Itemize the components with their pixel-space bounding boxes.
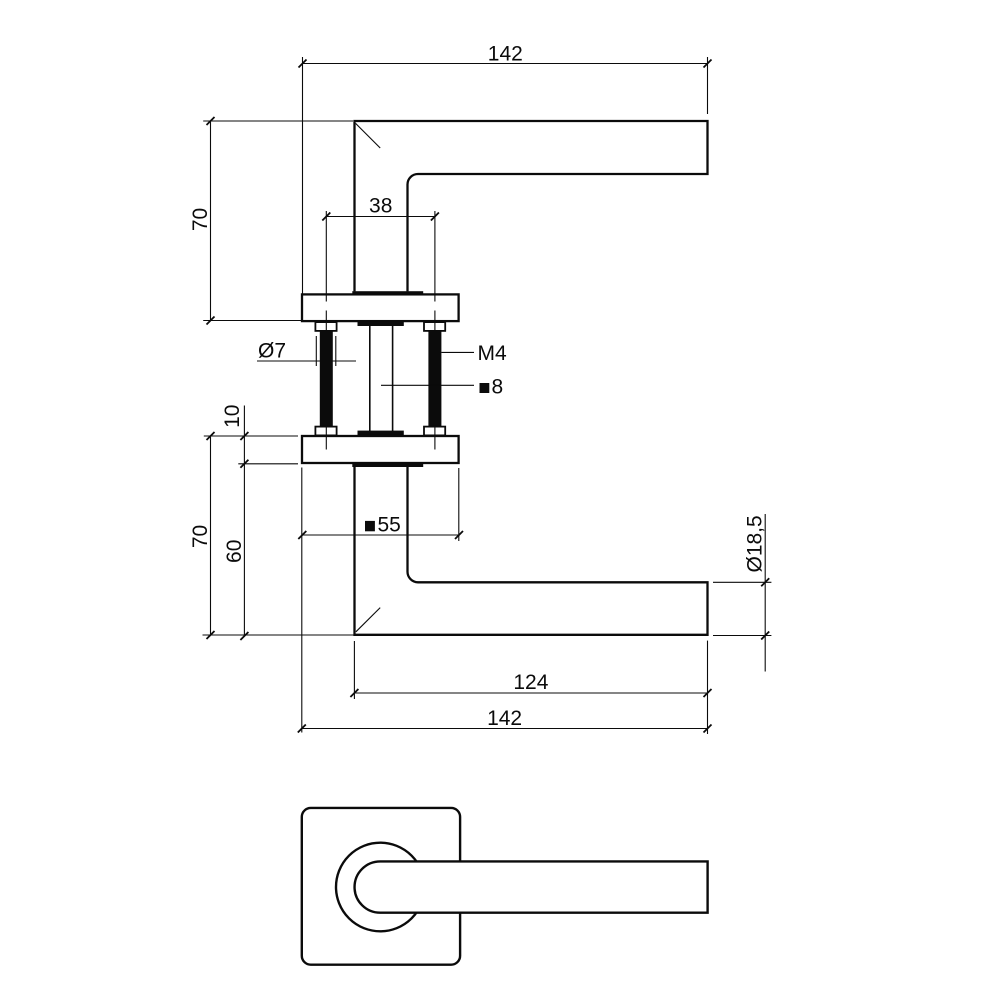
dim 55 line [302, 534, 459, 536]
diameter ticks on left bolt [315, 336, 317, 366]
dim 70 top extension top [203, 120, 353, 122]
svg-text:10: 10 [221, 405, 244, 428]
front view lever with round neck [355, 861, 708, 912]
dim 124 extension left [353, 641, 355, 699]
spindle cap bottom [358, 431, 404, 436]
dim 70 top ticks [207, 117, 215, 125]
svg-text:124: 124 [513, 671, 548, 694]
dim 18.5 extension bottom [713, 635, 771, 637]
svg-text:Ø18,5: Ø18,5 [743, 515, 766, 572]
bolt left centerline [325, 211, 327, 302]
bolt right centerline [434, 211, 436, 302]
leader diameter 7 [257, 360, 356, 362]
square-55 glyph [365, 521, 375, 531]
handle plate band lower [352, 464, 423, 467]
dim 38 line [326, 216, 435, 218]
svg-text:8: 8 [492, 375, 504, 398]
dim 142 bottom ticks [298, 725, 306, 733]
dim 18.5 line [764, 514, 766, 672]
bolt left top nut [315, 322, 336, 331]
svg-text:142: 142 [487, 707, 522, 730]
dim 70 top extension bottom [203, 320, 301, 322]
bolt right bottom nut [424, 427, 445, 436]
rosette lower (side view) [302, 436, 459, 463]
dim 55 left extension (long vertical) [301, 468, 303, 733]
bolt left shaft [320, 331, 333, 427]
leader M4 [441, 351, 474, 353]
dim 55 ticks [298, 531, 306, 539]
bolt right shaft [428, 331, 441, 427]
dim 70 bottom extension bottom / bar bottom extension [203, 634, 355, 636]
dim 70 bottom ticks [207, 432, 215, 440]
square-8 glyph [480, 383, 490, 393]
handle plate band upper [352, 291, 423, 294]
spindle edges [369, 325, 371, 432]
svg-text:142: 142 [488, 43, 523, 66]
svg-text:M4: M4 [478, 342, 507, 365]
dim 124 ticks [350, 689, 358, 697]
svg-text:Ø7: Ø7 [258, 340, 286, 363]
dim 142 top line [303, 63, 708, 65]
svg-text:60: 60 [223, 540, 246, 563]
dim 38 ticks [322, 213, 330, 221]
dim 70 top line [210, 121, 212, 321]
spindle cap top [358, 322, 404, 326]
dim 10/60 extension mid [204, 435, 298, 437]
svg-text:70: 70 [189, 208, 212, 231]
chamfer mark upper [356, 123, 381, 148]
front view rosette square [302, 808, 460, 965]
dim texts [189, 43, 766, 731]
svg-text:38: 38 [369, 195, 392, 218]
dim 124 line [354, 692, 707, 694]
svg-text:55: 55 [378, 513, 401, 536]
dim 55 right extension [458, 468, 460, 541]
dim 142 bottom line [302, 728, 708, 730]
dim 142 top extension left [302, 57, 304, 294]
dim 142 top ticks [299, 60, 307, 68]
handle upper side-view outline [355, 121, 708, 291]
bolt right top nut [424, 322, 445, 331]
dim 18.5 ticks [761, 578, 769, 586]
dim 10 extension bottom [238, 463, 298, 465]
bolt left bottom nut [315, 427, 336, 436]
dim 10-60 line [243, 406, 245, 637]
svg-text:70: 70 [189, 525, 212, 548]
front view outer circle [336, 843, 425, 932]
dim 18.5 extension top [713, 581, 771, 583]
chamfer mark lower [356, 608, 380, 632]
dim 70 bottom line [210, 436, 212, 635]
handle lower side-view outline [355, 467, 708, 635]
leader square 8 [381, 384, 474, 386]
rosette upper (side view) [302, 294, 459, 321]
dim 142 top extension right [707, 57, 709, 114]
dim 10 ticks [240, 432, 248, 440]
dim 124/142 extension right [707, 641, 709, 734]
